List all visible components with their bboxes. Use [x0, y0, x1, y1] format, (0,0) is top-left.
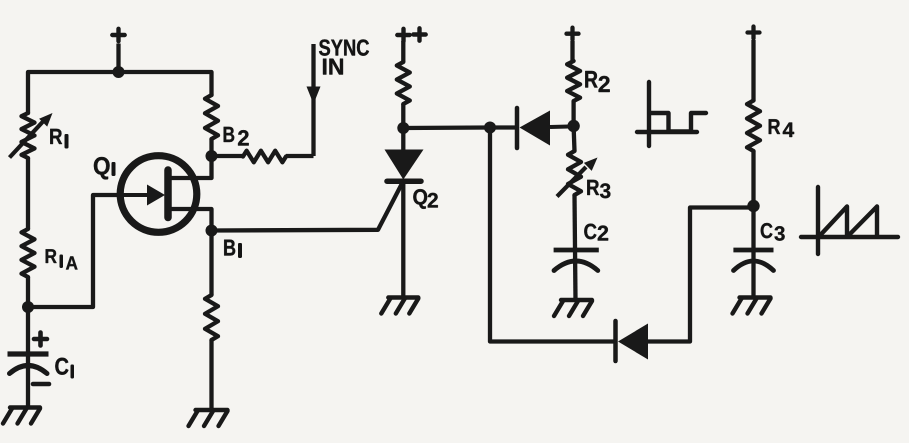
- label C1: [55, 358, 74, 379]
- power +V supply (top left): [112, 29, 124, 41]
- wire R4 stub: [751, 40, 755, 101]
- node R2 R3 junction: [567, 120, 579, 132]
- wire top rail: [28, 72, 212, 113]
- wire feedback node to diode D1: [490, 125, 515, 129]
- diode D1 pointing left: [517, 108, 569, 148]
- label R4: [769, 119, 794, 137]
- label B2: [224, 127, 249, 146]
- wire B1 to gate: [212, 184, 403, 231]
- label Q1: [94, 157, 116, 179]
- transistor Q1 UJT: [120, 156, 211, 233]
- wire junction to emitter: [28, 195, 122, 307]
- variable resistor R3: [557, 126, 598, 197]
- label Q2: [413, 189, 438, 209]
- SCR Q2: [385, 128, 424, 297]
- label C3: [761, 223, 785, 241]
- ground Q2: [381, 298, 418, 314]
- resistor R4: [747, 101, 760, 207]
- waveform square wave: [637, 82, 706, 146]
- wire supply stub: [116, 44, 120, 73]
- power + supply (R4): [748, 27, 760, 39]
- label C2: [584, 224, 608, 241]
- power + supply (R2): [567, 28, 579, 40]
- wire SYNC input: [311, 44, 315, 156]
- node feedback junction: [484, 122, 496, 134]
- ground C2: [554, 300, 592, 316]
- wire R1A to node: [26, 277, 30, 307]
- resistor B2 base-two: [205, 95, 218, 156]
- ground B1: [189, 410, 228, 426]
- resistor sync coupling: [212, 151, 314, 163]
- capacitor C1 polarized: [8, 307, 50, 407]
- variable resistor R1: [10, 113, 53, 158]
- label B1: [224, 240, 242, 258]
- node emitter junction: [22, 301, 34, 313]
- wire R2 stub: [570, 41, 574, 61]
- resistor Q2 anode: [397, 62, 410, 128]
- waveform sawtooth: [801, 187, 898, 254]
- node top-rail junction: [113, 66, 125, 78]
- wire anode junction to feedback node: [403, 125, 490, 130]
- resistor R2: [567, 61, 580, 126]
- ground C3: [733, 298, 771, 314]
- wire feedback left segment: [490, 128, 613, 342]
- resistor B1: [205, 231, 218, 410]
- node B1 junction: [206, 225, 218, 237]
- node Q2 anode junction: [397, 122, 409, 134]
- label SYNC IN: [319, 39, 369, 74]
- capacitor C2: [554, 195, 599, 300]
- power ++ supply (Q2 anode): [397, 28, 425, 41]
- arrow SYNC direction: [307, 87, 321, 105]
- resistor R1A: [22, 229, 35, 277]
- ground C1: [3, 408, 40, 424]
- label R1: [50, 129, 68, 149]
- wire ++ stub: [401, 41, 405, 62]
- label R2: [585, 71, 609, 92]
- diode D2 feedback pointing left: [616, 321, 649, 361]
- node B2 junction: [206, 150, 218, 162]
- label R3: [587, 180, 610, 198]
- wire feedback right segment: [648, 208, 754, 342]
- node R4 C3 junction: [747, 200, 759, 212]
- label R1A: [46, 249, 78, 269]
- capacitor C3: [733, 206, 773, 297]
- wire R1 to R1A: [26, 158, 30, 229]
